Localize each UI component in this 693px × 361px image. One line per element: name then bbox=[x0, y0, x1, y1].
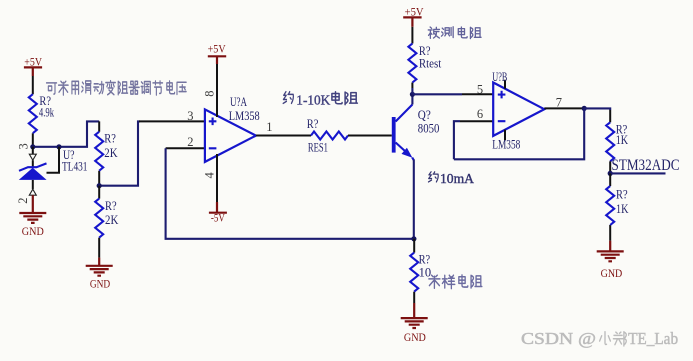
svg-text:TL431: TL431 bbox=[62, 159, 88, 174]
svg-text:2K: 2K bbox=[104, 145, 118, 160]
svg-text:Rtest: Rtest bbox=[419, 55, 442, 70]
svg-text:4: 4 bbox=[202, 172, 216, 179]
svg-text:GND: GND bbox=[22, 226, 44, 238]
svg-text:6: 6 bbox=[477, 107, 483, 121]
svg-text:7: 7 bbox=[556, 95, 562, 109]
svg-text:TE_Lab: TE_Lab bbox=[628, 329, 678, 348]
svg-text:+5V: +5V bbox=[208, 43, 227, 55]
svg-text:3: 3 bbox=[17, 143, 31, 149]
svg-text:10: 10 bbox=[419, 265, 432, 280]
svg-text:+5V: +5V bbox=[405, 6, 425, 18]
svg-text:2K: 2K bbox=[105, 212, 119, 227]
svg-text:-5V: -5V bbox=[211, 213, 226, 225]
svg-text:1-10K: 1-10K bbox=[296, 94, 330, 109]
svg-text:3: 3 bbox=[187, 109, 193, 123]
svg-text:R?: R? bbox=[105, 198, 117, 213]
svg-text:1: 1 bbox=[266, 120, 272, 134]
svg-text:STM32ADC: STM32ADC bbox=[612, 157, 680, 174]
svg-text:U?B: U?B bbox=[492, 69, 507, 84]
svg-text:8050: 8050 bbox=[418, 121, 440, 136]
svg-text:GND: GND bbox=[90, 278, 110, 290]
svg-text:LM358: LM358 bbox=[229, 108, 260, 123]
svg-text:LM358: LM358 bbox=[492, 137, 520, 152]
svg-text:1K: 1K bbox=[616, 201, 629, 216]
svg-text:R?: R? bbox=[307, 116, 319, 131]
svg-text:GND: GND bbox=[601, 268, 623, 280]
svg-text:10mA: 10mA bbox=[440, 172, 475, 187]
svg-text:R?: R? bbox=[104, 130, 116, 145]
svg-text:RES1: RES1 bbox=[308, 139, 328, 154]
svg-text:1K: 1K bbox=[616, 132, 629, 147]
svg-text:5: 5 bbox=[477, 83, 483, 97]
svg-text:2: 2 bbox=[187, 135, 193, 149]
svg-text:4.9k: 4.9k bbox=[39, 105, 55, 120]
svg-text:U?A: U?A bbox=[230, 94, 247, 109]
svg-text:2: 2 bbox=[16, 198, 30, 204]
svg-text:R?: R? bbox=[616, 187, 628, 202]
svg-text:GND: GND bbox=[404, 332, 426, 344]
svg-text:8: 8 bbox=[202, 91, 216, 97]
svg-text:CSDN @: CSDN @ bbox=[521, 329, 596, 348]
